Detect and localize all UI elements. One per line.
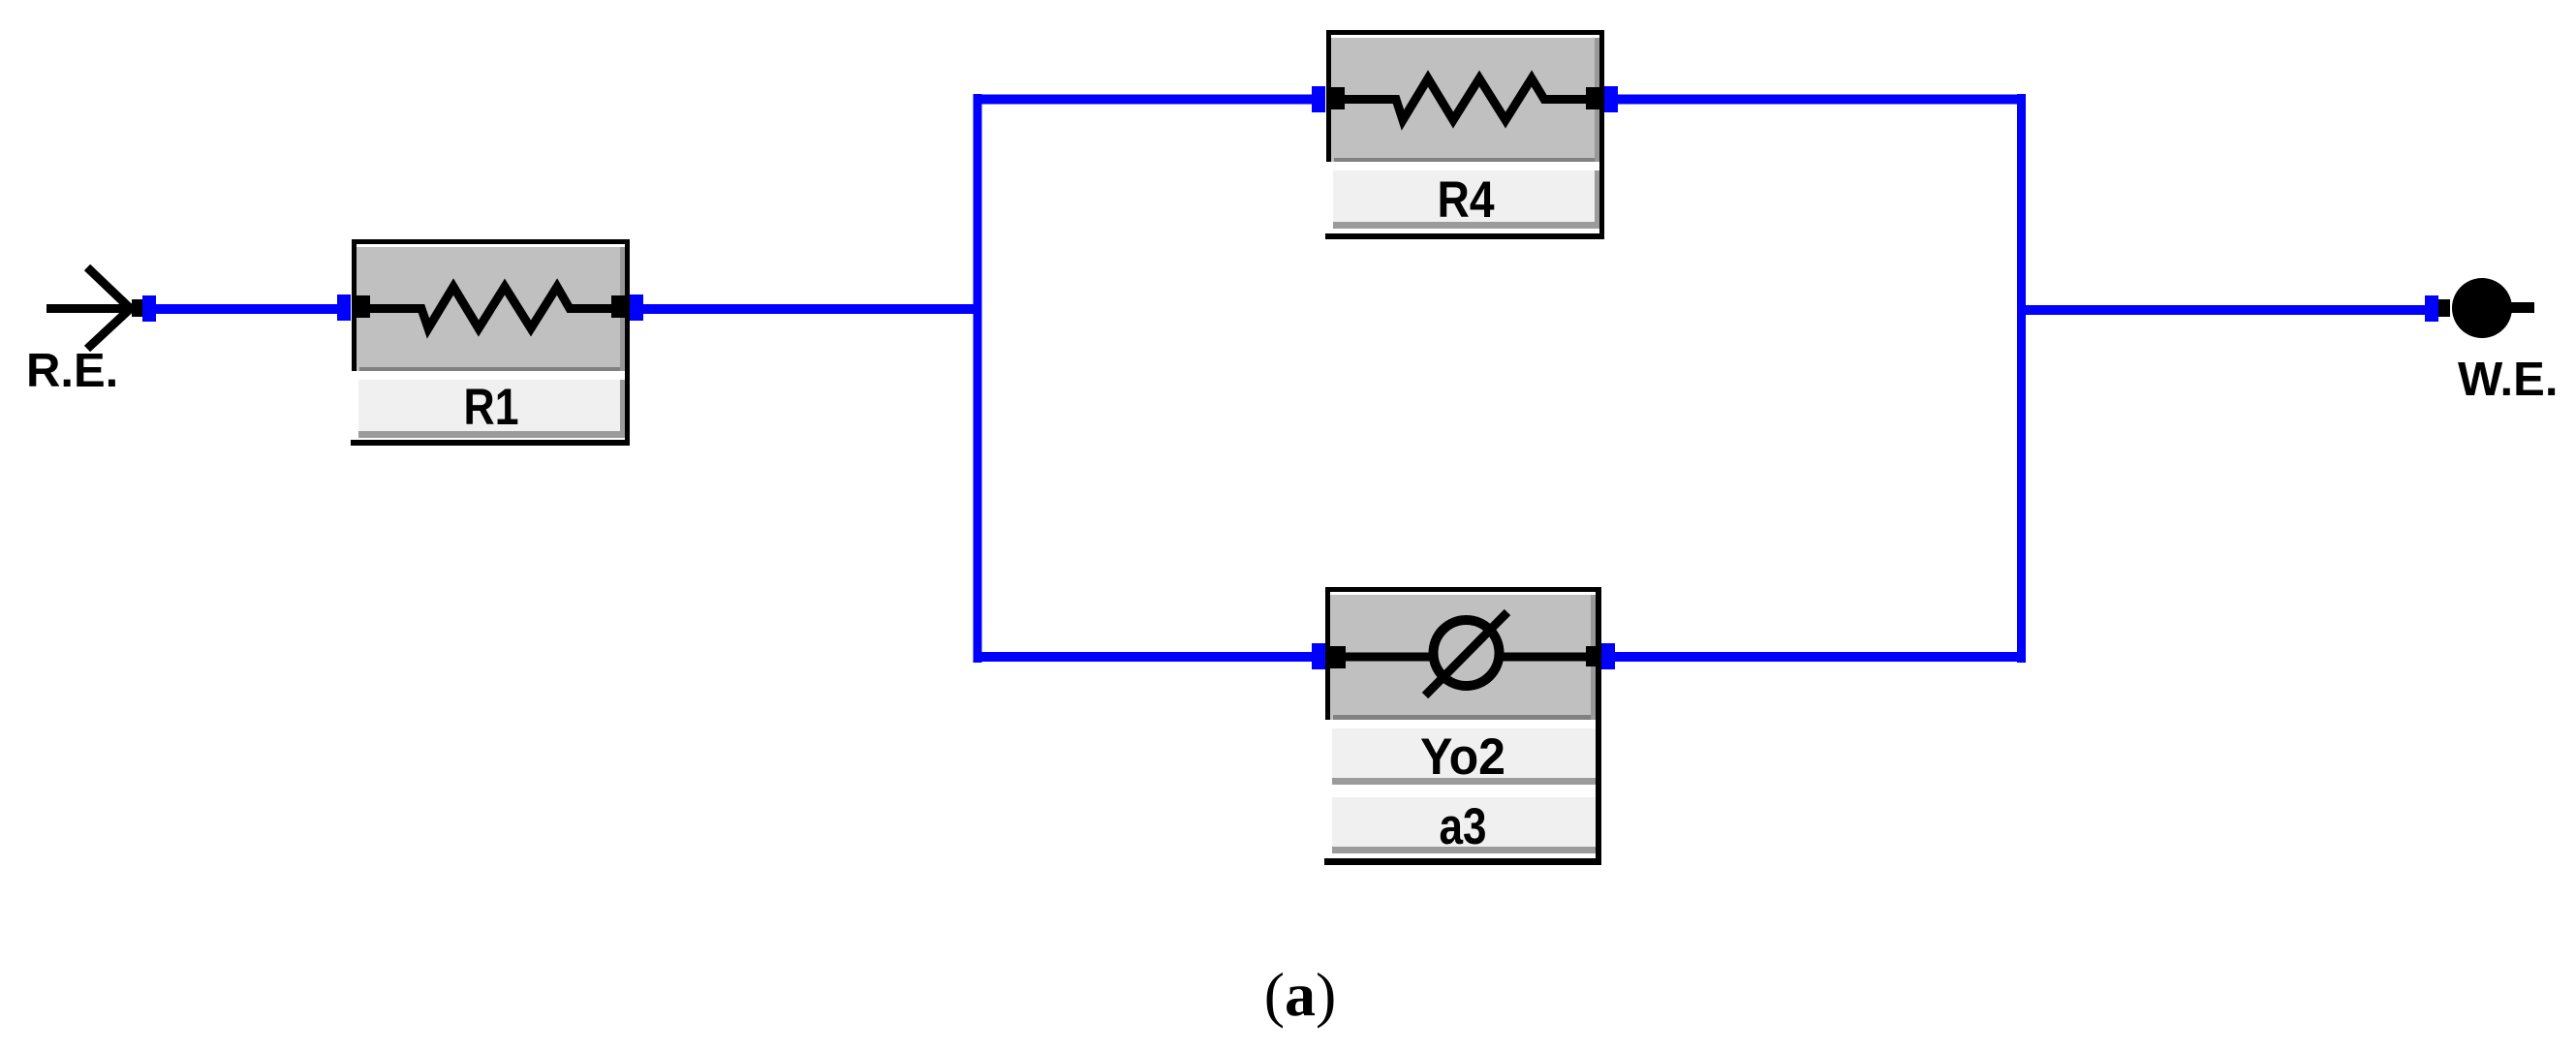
CPE label row Yo2 — [1329, 726, 1596, 785]
R1 black frame left — [352, 239, 357, 371]
R4 black frame right — [1599, 30, 1604, 239]
terminal W.E. — [2438, 278, 2534, 338]
R1 pin stub right — [611, 295, 626, 318]
wire top branch right — [1616, 95, 2026, 105]
R1 label row — [356, 377, 625, 438]
terminal R.E. — [47, 267, 137, 349]
node CPE left — [1312, 643, 1325, 669]
CPE pin stub right — [1586, 646, 1596, 666]
CPE circle symbol — [1434, 620, 1500, 686]
R1 zigzag symbol — [366, 287, 616, 328]
CPE lead right — [1500, 653, 1591, 662]
node R1 left — [337, 294, 351, 321]
CPE gray symbol area — [1330, 592, 1596, 720]
CPE diagonal stroke — [1425, 612, 1507, 696]
CPE black frame bottom — [1324, 858, 1601, 865]
R4 label row — [1330, 168, 1599, 229]
svg-text:a3: a3 — [1440, 798, 1487, 855]
CPE lead left — [1337, 653, 1434, 662]
node R4 right — [1604, 86, 1618, 112]
W.E. dot — [2452, 278, 2512, 338]
CPE label row a3 — [1329, 794, 1596, 853]
pin stub R.E. — [132, 299, 143, 317]
R1 black frame bottom — [351, 440, 630, 446]
wire R.E. to R1 — [147, 304, 343, 314]
svg-text:W.E.: W.E. — [2458, 354, 2558, 406]
svg-text:R.E.: R.E. — [26, 345, 118, 397]
R4 black frame top — [1326, 30, 1604, 35]
svg-text:Yo2: Yo2 — [1420, 728, 1505, 786]
svg-text:(a): (a) — [1264, 960, 1337, 1029]
CPE black frame right — [1596, 587, 1601, 865]
svg-text:R4: R4 — [1438, 171, 1495, 229]
node W.E. — [2425, 295, 2438, 322]
node R1 right — [630, 294, 643, 321]
R4 pin stub right — [1586, 87, 1600, 109]
node R4 left — [1312, 86, 1325, 112]
CPE black frame top — [1325, 587, 1601, 592]
wire bottom branch left — [974, 652, 1315, 662]
resistor R1 — [351, 239, 630, 446]
R1 black frame top — [352, 239, 630, 244]
R1 pin stub left — [356, 295, 370, 318]
pin stub W.E. — [2438, 299, 2450, 317]
R4 black frame left — [1326, 30, 1331, 162]
R1 gray symbol area — [357, 244, 625, 371]
CPE black frame left — [1325, 587, 1330, 720]
CPE pin stub left — [1330, 646, 1346, 668]
CPE element Yo2/a3 — [1324, 587, 1601, 865]
resistor R4 — [1325, 30, 1604, 239]
W.E. right lead — [2509, 302, 2534, 313]
R4 black frame bottom — [1325, 233, 1604, 239]
svg-text:R1: R1 — [464, 379, 519, 436]
wire right junction vertical — [2017, 94, 2026, 663]
R4 pin stub left — [1330, 87, 1345, 109]
R1 black frame right — [625, 239, 630, 446]
wire R1 to left junction — [636, 304, 981, 314]
node R.E. — [142, 295, 156, 322]
wire top branch left — [974, 95, 1315, 105]
wire left junction vertical — [974, 94, 982, 663]
node CPE right — [1601, 643, 1615, 669]
R4 zigzag symbol — [1341, 78, 1591, 120]
wire right junction to W.E. — [2026, 305, 2427, 315]
R4 gray symbol area — [1331, 35, 1599, 162]
wire bottom branch right — [1613, 652, 2026, 662]
